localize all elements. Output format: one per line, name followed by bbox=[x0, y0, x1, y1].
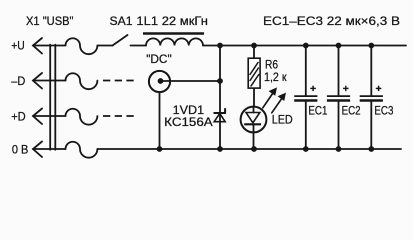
svg-text:ЕС1–ЕС3 22 мк×6,3 В: ЕС1–ЕС3 22 мк×6,3 В bbox=[263, 14, 400, 28]
svg-text:EC2: EC2 bbox=[342, 103, 361, 117]
svg-text:+U: +U bbox=[11, 39, 25, 53]
svg-text:SA1: SA1 bbox=[110, 14, 133, 28]
svg-text:"DC": "DC" bbox=[146, 52, 172, 66]
svg-text:X1 "USB": X1 "USB" bbox=[26, 14, 74, 28]
svg-text:1L1 22 мкГн: 1L1 22 мкГн bbox=[136, 14, 208, 28]
svg-text:+D: +D bbox=[11, 110, 26, 124]
svg-text:1,2 к: 1,2 к bbox=[264, 70, 287, 84]
svg-text:0 В: 0 В bbox=[12, 143, 29, 157]
svg-text:+: + bbox=[376, 83, 382, 95]
svg-text:+: + bbox=[343, 83, 349, 95]
svg-text:КС156А: КС156А bbox=[164, 115, 213, 129]
svg-text:+: + bbox=[310, 83, 316, 95]
svg-text:EC3: EC3 bbox=[374, 103, 393, 117]
svg-text:EC1: EC1 bbox=[308, 103, 327, 117]
svg-text:LED: LED bbox=[272, 113, 293, 127]
svg-text:–D: –D bbox=[11, 74, 25, 88]
